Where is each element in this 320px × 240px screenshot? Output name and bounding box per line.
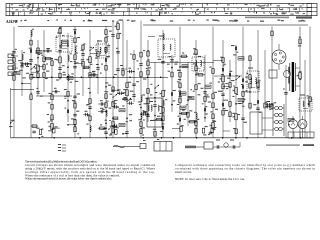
svg-text:small circles.: small circles.: [175, 170, 192, 174]
svg-text:A242 R: A242 R: [5, 20, 18, 24]
svg-text:correspond with those appearin: correspond with those appearing on the c…: [175, 167, 316, 171]
